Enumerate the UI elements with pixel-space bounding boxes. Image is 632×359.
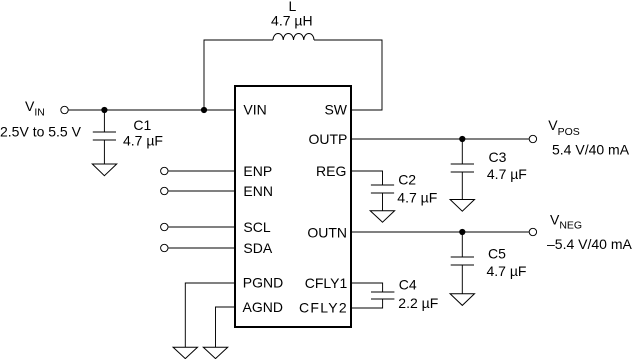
svg-text:4.7 µH: 4.7 µH [271, 12, 313, 28]
svg-text:–5.4 V/40 mA: –5.4 V/40 mA [547, 236, 632, 252]
inductor L [273, 34, 314, 41]
svg-text:REG: REG [316, 163, 346, 179]
svg-text:C5: C5 [488, 245, 506, 261]
junction C3 node [459, 136, 465, 142]
svg-text:2.2 µF: 2.2 µF [398, 295, 438, 311]
wire SDA [168, 247, 235, 249]
capacitor C1 [93, 110, 116, 164]
capacitor C4 [371, 292, 394, 299]
wire REG [351, 171, 383, 185]
wire CFLY1 [351, 283, 383, 292]
ground PGND [173, 347, 197, 358]
ground C1 [92, 164, 116, 176]
svg-text:SW: SW [324, 102, 347, 118]
ground C2 [370, 211, 394, 223]
wire OUTP [351, 138, 529, 140]
ground C3 [450, 200, 474, 212]
svg-text:OUTP: OUTP [309, 131, 348, 147]
svg-text:4.7 µF: 4.7 µF [397, 189, 437, 205]
svg-text:ENN: ENN [243, 183, 273, 199]
junction C5 node [459, 229, 465, 235]
svg-text:C4: C4 [399, 277, 417, 293]
svg-text:4.7 µF: 4.7 µF [123, 132, 163, 148]
IC U1 body [235, 86, 351, 327]
ground C5 [450, 294, 474, 306]
capacitor C3 [451, 139, 474, 200]
terminal VNEG [529, 228, 536, 235]
svg-text:SDA: SDA [243, 240, 272, 256]
svg-text:AGND: AGND [243, 299, 283, 315]
svg-text:OUTN: OUTN [307, 225, 347, 241]
wire SW [314, 40, 382, 110]
svg-text:PGND: PGND [243, 275, 283, 291]
svg-text:5.4 V/40 mA: 5.4 V/40 mA [552, 141, 630, 157]
svg-text:4.7 µF: 4.7 µF [487, 263, 527, 279]
wire CFLY2 [351, 299, 383, 308]
terminal VIN input [61, 106, 68, 113]
junction inductor node [201, 107, 207, 113]
terminal SDA [161, 244, 168, 251]
svg-text:2.5V to 5.5 V: 2.5V to 5.5 V [0, 124, 82, 140]
terminal SCL [161, 223, 168, 230]
svg-text:ENP: ENP [243, 163, 272, 179]
terminal VPOS [529, 135, 536, 142]
terminal ENP [161, 167, 168, 174]
svg-text:VIN: VIN [243, 102, 266, 118]
wire VIN input [69, 109, 236, 111]
svg-text:CFLY2: CFLY2 [299, 300, 348, 316]
terminal ENN [161, 187, 168, 194]
svg-text:C2: C2 [398, 171, 416, 187]
ground AGND [203, 347, 227, 358]
svg-text:CFLY1: CFLY1 [305, 275, 348, 291]
wire inductor left [204, 40, 273, 110]
svg-text:C3: C3 [489, 149, 507, 165]
wire AGND [216, 307, 236, 347]
capacitor C5 [451, 232, 474, 294]
svg-text:C1: C1 [133, 117, 151, 133]
wire OUTN [351, 231, 529, 233]
svg-text:SCL: SCL [243, 219, 270, 235]
wire SCL [168, 226, 235, 228]
junction C1 node [101, 107, 107, 113]
wire ENN [168, 190, 235, 192]
capacitor C2 [371, 185, 394, 211]
svg-text:4.7 µF: 4.7 µF [487, 166, 527, 182]
wire ENP [168, 170, 235, 172]
wire PGND [185, 283, 235, 347]
